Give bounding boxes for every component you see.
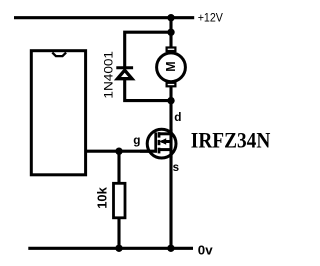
channel dash top (158, 132, 161, 137)
channel dash bottom (158, 148, 161, 154)
svg-text:IRFZ34N: IRFZ34N (191, 128, 271, 153)
node: rail junction (167, 14, 174, 21)
svg-text:d: d (174, 110, 181, 124)
channel dash middle (158, 140, 161, 145)
body arrow shaft (162, 140, 172, 143)
wire: IC output to gate (85, 150, 157, 153)
motor M1 (157, 48, 186, 87)
node: motor/drain junction (167, 97, 174, 104)
wire: main vertical (rail / motor / drain / source) (169, 18, 172, 249)
node: resistor/0v junction (115, 245, 122, 252)
svg-text:0v: 0v (198, 242, 214, 257)
node: gate/resistor junction (115, 148, 122, 155)
node: diode top junction (167, 29, 174, 36)
svg-text:g: g (133, 133, 140, 147)
wire: resistor branch (gate node to 0v) (117, 151, 120, 248)
svg-text:1N4001: 1N4001 (101, 51, 115, 99)
svg-text:s: s (173, 161, 179, 174)
diode D1 1N4001 (116, 68, 133, 79)
IC U1 (31, 51, 85, 175)
wire: diode top branch (125, 32, 171, 67)
gate electrode bar (154, 132, 157, 152)
MOSFET Q1 IRFZ34N (140, 129, 176, 158)
wire: +12V rail (14, 16, 194, 19)
drain bar (158, 132, 171, 135)
wire: 0v rail (28, 247, 193, 250)
node: source/0v junction (167, 245, 174, 252)
internal drain-source vertical (169, 129, 172, 158)
gate lead (140, 150, 157, 153)
svg-text:10k: 10k (95, 186, 109, 209)
source bar (158, 148, 171, 151)
svg-text:M: M (163, 61, 178, 71)
svg-text:+12V: +12V (198, 11, 224, 25)
resistor R1 10k (114, 183, 126, 218)
body arrow head (160, 138, 167, 144)
wire: diode bottom branch (125, 79, 171, 101)
